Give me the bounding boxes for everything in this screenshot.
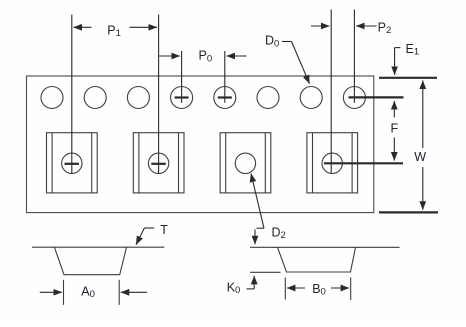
svg-text:T: T [160, 223, 168, 237]
section B: pocket trapezoid [278, 247, 356, 272]
dimension A0 arrows [40, 291, 147, 293]
svg-text:D2: D2 [272, 226, 286, 242]
sprocket hole 4 [171, 87, 193, 109]
svg-text:K0: K0 [227, 281, 241, 297]
dimension K0 arrows [247, 230, 256, 289]
bottom reference line [379, 211, 438, 213]
svg-text:A0: A0 [81, 285, 95, 301]
svg-text:P2: P2 [378, 21, 392, 37]
pocket 4 [307, 133, 358, 193]
leader D2 [251, 174, 264, 229]
sprocket centerline extension [349, 96, 404, 98]
section A: pocket trapezoid [54, 247, 126, 275]
dimension B0 arrows [287, 287, 349, 289]
section A: tape surface line [32, 246, 164, 248]
sprocket hole 7 [300, 87, 322, 109]
svg-text:P1: P1 [107, 24, 121, 40]
construction line sprocket 8 center [353, 10, 355, 103]
pocket centerline extension [324, 162, 403, 164]
construction line pocket 4 center [330, 10, 332, 174]
pocket 1 [47, 133, 98, 193]
svg-text:E1: E1 [406, 42, 420, 58]
sprocket hole 3 [127, 87, 149, 109]
pocket 3 [220, 133, 271, 193]
dimension K0 reference line [250, 271, 281, 273]
construction line sprocket 4 center [181, 51, 183, 103]
sprocket hole 2 [84, 87, 106, 109]
pocket 2 [133, 133, 184, 193]
dimension W [422, 80, 424, 209]
top reference line [379, 77, 437, 79]
section B: tape surface line [250, 246, 400, 248]
construction line pocket 1 center [71, 15, 73, 175]
dimension B0 extension lines [285, 277, 350, 300]
sprocket hole 6 [257, 87, 279, 109]
svg-text:W: W [414, 150, 426, 164]
sprocket hole 5 [214, 87, 236, 109]
dimension P2 arrows [311, 25, 377, 27]
construction line pocket 2 center [158, 15, 160, 175]
svg-text:P0: P0 [199, 49, 213, 65]
leader E1 [395, 48, 401, 75]
dimension A0 extension lines [64, 280, 120, 305]
dimension P1 arrows [73, 26, 157, 28]
tape outline [27, 76, 374, 213]
construction line sprocket 5 center [224, 51, 226, 103]
svg-text:D0: D0 [265, 34, 279, 50]
svg-text:F: F [391, 121, 399, 135]
leader D0 [282, 42, 310, 84]
sprocket hole 8 [343, 87, 365, 109]
svg-text:B0: B0 [312, 282, 326, 298]
dimension P0 arrows [159, 55, 246, 57]
sprocket hole 1 [41, 87, 63, 109]
leader T [136, 228, 154, 245]
dimension F [393, 101, 395, 161]
